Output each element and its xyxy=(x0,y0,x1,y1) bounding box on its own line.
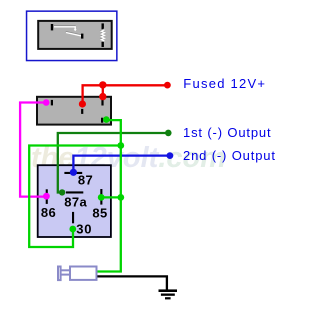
svg-text:87a: 87a xyxy=(64,195,87,210)
svg-text:85: 85 xyxy=(92,205,107,220)
svg-text:30: 30 xyxy=(76,221,92,236)
svg-text:1st (-) Output: 1st (-) Output xyxy=(183,125,271,140)
svg-text:2nd (-) Output: 2nd (-) Output xyxy=(183,148,276,163)
svg-text:87: 87 xyxy=(78,173,93,188)
svg-text:86: 86 xyxy=(41,205,56,220)
svg-text:Fused 12V+: Fused 12V+ xyxy=(183,76,266,91)
